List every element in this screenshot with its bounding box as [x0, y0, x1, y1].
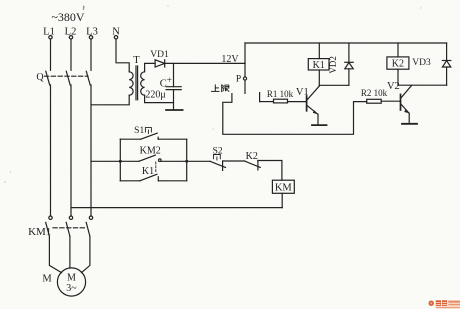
node L3 [86, 26, 98, 39]
node L1 [43, 26, 55, 39]
svg-text:T: T [133, 55, 140, 66]
switch Q [36, 71, 90, 85]
watermark logo [429, 300, 460, 308]
node junction right [185, 160, 188, 163]
ground (capacitor) [166, 109, 183, 111]
diode VD3 [412, 43, 451, 85]
svg-text:S1: S1 [134, 126, 144, 136]
wire to S2 [187, 160, 210, 162]
wire N drop [115, 39, 117, 62]
ground (V1 emitter) [312, 124, 327, 126]
linkage dashed [155, 162, 157, 173]
node N [112, 26, 120, 39]
contact KM2 [120, 146, 186, 162]
wire top rail [245, 42, 447, 44]
pushbutton S2 (NC) [210, 146, 245, 170]
wire L2 main [70, 85, 72, 216]
svg-text:R1 10k: R1 10k [267, 89, 294, 99]
wire parallel-left [119, 139, 121, 181]
contact K1 [120, 166, 186, 181]
ground (V2 emitter) [402, 123, 417, 125]
pushbutton S1 [120, 126, 186, 139]
svg-text:P: P [236, 75, 241, 85]
relay coil K1 [308, 43, 349, 85]
wire parallel-right [186, 139, 188, 181]
svg-text:VD3: VD3 [412, 58, 431, 68]
diode VD1 [150, 50, 169, 67]
label upper-limit (shang xian) [212, 85, 229, 92]
wire L3 drop [90, 39, 92, 70]
svg-text:R2 10k: R2 10k [361, 88, 388, 98]
svg-text:K2: K2 [246, 151, 258, 162]
wire control feed [91, 160, 120, 162]
svg-text:V2: V2 [387, 81, 400, 92]
svg-text:VD2: VD2 [328, 56, 338, 74]
relay coil K2 [387, 43, 447, 85]
node junction left [119, 160, 122, 163]
node L2 [65, 26, 77, 39]
node P terminal [236, 63, 247, 93]
transformer T [91, 55, 174, 105]
transistor V2 [387, 81, 412, 123]
svg-text:+: + [167, 76, 172, 86]
svg-text:KM2: KM2 [140, 146, 161, 157]
wire L1 main [50, 85, 52, 216]
svg-text:K1: K1 [313, 60, 325, 71]
motor M [42, 268, 85, 296]
electrode upper-limit probe wire [223, 94, 367, 135]
svg-text:3~: 3~ [66, 283, 77, 294]
capacitor C 220u [145, 63, 181, 110]
contactor coil KM [272, 180, 294, 207]
svg-text:Q: Q [36, 72, 44, 83]
svg-text:M: M [42, 273, 52, 284]
wire motor leads [49, 236, 90, 272]
wire L1 drop [50, 39, 52, 70]
transistor V1 [296, 86, 319, 124]
contactor KM1 main contacts [28, 216, 93, 238]
electrode probe (to R1) [259, 93, 261, 102]
svg-text:12V: 12V [221, 54, 239, 65]
wire 12V line [165, 62, 245, 64]
scan speckles [4, 5, 421, 183]
svg-text:K2: K2 [392, 59, 404, 70]
svg-text:~380V: ~380V [51, 10, 84, 24]
wire L2 drop [70, 39, 72, 70]
svg-text:220μ: 220μ [145, 89, 165, 100]
contact K2 (NC) [245, 151, 282, 180]
resistor R2 10k [361, 88, 401, 103]
wire 12V riser [244, 43, 246, 63]
svg-text:KM: KM [275, 183, 293, 194]
diode VD2 [328, 43, 353, 85]
wire control return [71, 207, 282, 209]
svg-text:VD1: VD1 [150, 50, 169, 60]
wire L3 main [90, 85, 92, 216]
resistor R1 10k [260, 89, 307, 103]
